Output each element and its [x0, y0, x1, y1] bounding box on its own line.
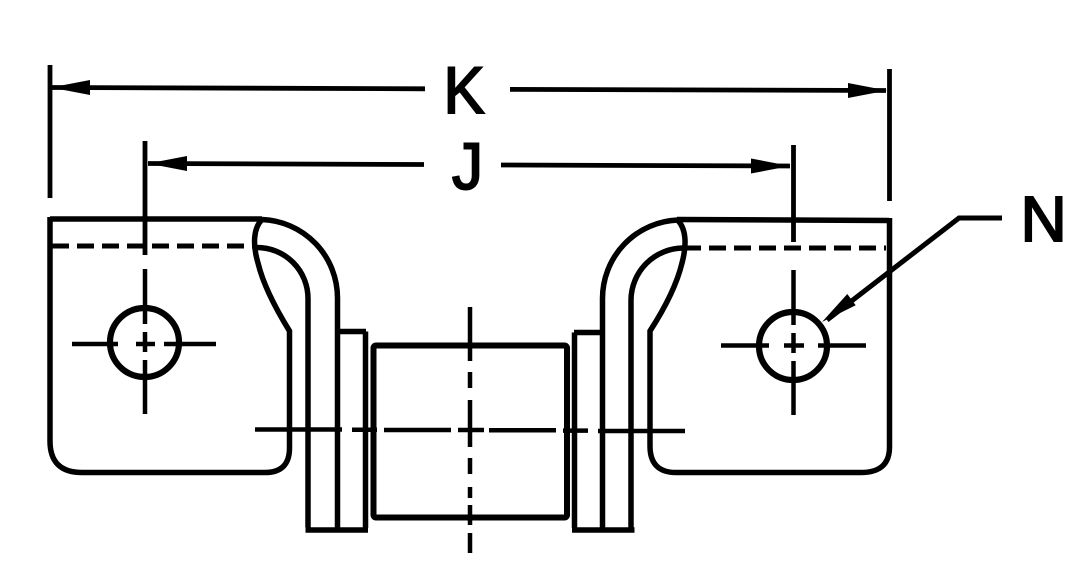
right hole vertical centerline [791, 270, 796, 415]
left bracket top edge [50, 216, 262, 222]
dimension K arrowhead right [848, 83, 887, 98]
label N leader line [827, 218, 1002, 320]
right strap inner curve [631, 248, 684, 528]
left washer top cap [338, 329, 366, 335]
left strap inner curve [257, 247, 309, 527]
left hole horizontal centerline [72, 342, 216, 347]
left hole circle [110, 308, 179, 377]
left bracket outline [50, 217, 290, 473]
dimension J line left segment [148, 164, 424, 165]
right washer left edge [572, 333, 578, 529]
dimension J extension line right (top of right hole centerline) [791, 145, 796, 242]
dimension K arrowhead left [51, 80, 90, 95]
dimension K line right segment [510, 89, 886, 90]
svg-text:K: K [444, 53, 485, 127]
dimension J line right segment [501, 165, 790, 166]
center cylinder [374, 346, 568, 518]
left strap/washer bottom cap [306, 527, 369, 533]
right washer top cap [574, 330, 602, 336]
right strap outer curve [602, 220, 678, 528]
left washer right edge [363, 332, 369, 529]
dimension J arrowhead right [751, 159, 790, 174]
cylinder horizontal centerline (dashed) [255, 430, 685, 432]
left bracket hidden edge (dashed) [52, 244, 253, 249]
dimension K extension line right [887, 69, 892, 201]
right bracket top edge [677, 220, 889, 221]
left strap outer curve [262, 220, 338, 528]
right bracket outline [650, 218, 890, 473]
label N leader arrowhead [822, 294, 856, 322]
svg-text:N: N [1021, 183, 1067, 255]
right bracket hidden edge (dashed) [684, 246, 886, 251]
dimension J arrowhead left [148, 156, 187, 171]
right hole horizontal centerline [721, 343, 866, 348]
dimension J extension line left (top of left hole centerline) [143, 141, 148, 255]
svg-text:J: J [452, 129, 483, 203]
dimension K line left segment [52, 88, 425, 89]
dimension K extension line left [48, 65, 53, 198]
left hole vertical centerline [143, 269, 148, 414]
cylinder vertical centerline (dashed) [468, 307, 473, 553]
right hole circle [759, 312, 827, 380]
right strap/washer bottom cap [572, 527, 635, 533]
